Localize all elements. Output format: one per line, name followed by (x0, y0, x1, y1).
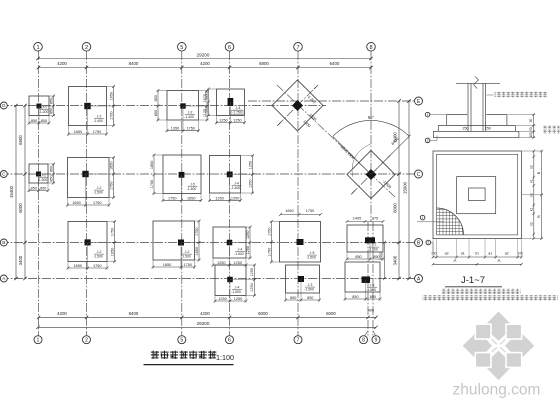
footing J-4 @6-D: bottom dim (217, 122, 245, 124)
diagonal cross axis diamond 1 (277, 85, 318, 126)
svg-text:1650: 1650 (195, 247, 199, 255)
fan radial line right (radius dim 6400) (371, 136, 409, 174)
left segment dim line (24, 106, 26, 279)
svg-text:1250: 1250 (246, 231, 250, 239)
axis bubble 7 top (294, 43, 303, 52)
svg-text:6000: 6000 (326, 311, 336, 316)
svg-text:-1.200: -1.200 (39, 110, 49, 114)
footing J-7 @8-B: bottom dim (347, 258, 383, 260)
detail section: step 1 outline (447, 114, 468, 116)
svg-text:1250: 1250 (219, 119, 227, 123)
svg-text:250: 250 (485, 126, 491, 130)
axis bubble 5 top (178, 43, 187, 52)
svg-text:1650: 1650 (109, 92, 113, 100)
svg-text:1250: 1250 (215, 196, 223, 200)
svg-text:1650: 1650 (74, 264, 82, 268)
svg-text:1:100: 1:100 (216, 353, 234, 362)
axis bubble 2 bottom (83, 336, 91, 344)
footing J-2 @2-C: column (82, 171, 88, 177)
svg-text:29200: 29200 (197, 53, 210, 58)
axis bubble 7 bottom (294, 336, 302, 344)
footing J-5 @7-B: column (297, 239, 304, 245)
svg-text:100: 100 (529, 132, 533, 138)
svg-text:5: 5 (180, 45, 183, 51)
svg-text:1750: 1750 (267, 248, 271, 256)
svg-text:4200: 4200 (200, 61, 210, 66)
svg-text:7: 7 (297, 338, 300, 344)
svg-text:-1.500: -1.500 (368, 248, 378, 252)
svg-text:1650: 1650 (72, 201, 80, 205)
detail note line 2 (422, 295, 558, 300)
svg-text:J-7: J-7 (372, 243, 377, 247)
axis bubble 1 bottom (34, 336, 42, 344)
axis bubble 8 top (367, 43, 376, 52)
svg-text:J-3: J-3 (308, 283, 313, 287)
svg-text:1: 1 (422, 216, 424, 220)
svg-text:A: A (498, 258, 501, 263)
footing J-2 @5-D: left dim (157, 91, 159, 121)
svg-text:1250: 1250 (248, 161, 252, 169)
svg-text:1875: 1875 (204, 91, 208, 99)
svg-text:6000: 6000 (18, 203, 23, 213)
footing J-1 @1-D: bottom dim (29, 122, 49, 124)
svg-text:zhulong.com: zhulong.com (453, 382, 541, 399)
svg-text:1: 1 (37, 338, 40, 344)
svg-text:850: 850 (154, 110, 158, 116)
svg-text:J-2: J-2 (185, 250, 190, 254)
detail plan: outer square (433, 151, 521, 239)
diamond footing J-6 @8-C: column (366, 169, 377, 180)
footing J-2 @2-C: outline (68, 158, 110, 198)
footing J-7 @8-B: top dim (347, 221, 383, 223)
svg-text:h1: h1 (475, 251, 479, 255)
svg-text:50: 50 (529, 119, 533, 123)
footing J-1 @1-C: outline (29, 164, 48, 183)
footing J-2 @5-B: column (178, 240, 184, 246)
svg-text:1250: 1250 (233, 119, 241, 123)
axis bubble 6 top (225, 43, 234, 52)
svg-text:1405: 1405 (353, 216, 361, 220)
axis line 6 (229, 51, 231, 336)
svg-text:850: 850 (31, 119, 37, 123)
svg-text:J-1: J-1 (42, 106, 47, 110)
detail section: base slab (433, 131, 519, 137)
axis line A (0, 278, 414, 280)
axis bubble A left (0, 275, 7, 282)
axis bubble 8 bottom (360, 336, 368, 344)
footing J-2 @5-B: bottom dim (153, 266, 195, 268)
detail section: right dim chain (533, 115, 535, 138)
footing J-4 @6-A: column (227, 277, 233, 283)
svg-text:C: C (417, 172, 421, 178)
detail section: right margin note (543, 126, 560, 129)
svg-text:850: 850 (40, 187, 46, 191)
detail plan: middle square (457, 177, 496, 214)
svg-text:J-4: J-4 (234, 182, 239, 186)
svg-text:850: 850 (290, 296, 296, 300)
footing J-4 @6-A: outline (215, 265, 246, 296)
footing J-2 @2-B: outline (68, 222, 107, 262)
svg-text:90°: 90° (368, 115, 375, 120)
footing J-1 @1-D: right dim (53, 96, 55, 116)
footing J-5 @7-B: left dim (271, 222, 273, 263)
axis bubble C right (415, 170, 423, 178)
svg-text:1: 1 (427, 113, 429, 117)
axis line 5 (181, 51, 183, 336)
svg-text:250: 250 (463, 126, 469, 130)
svg-text:J-4: J-4 (236, 106, 241, 110)
title underline (144, 364, 234, 366)
footing J-1 @1-C: right dim (53, 164, 55, 183)
footing J-7 @8-B: column (365, 237, 375, 243)
top segment dim line (38, 67, 371, 69)
svg-text:850: 850 (49, 98, 53, 104)
footing J-2 @2-D: right dim (113, 87, 115, 126)
footing J-2 @2-D: bottom dim (69, 133, 107, 135)
svg-text:-1.500: -1.500 (231, 290, 241, 294)
detail section: column rebar lines (467, 83, 469, 131)
svg-text:100: 100 (518, 251, 524, 255)
svg-text:-1.400: -1.400 (184, 115, 194, 119)
footing J-4 @6-C: bottom dim (210, 199, 241, 201)
axis bubble 5 bottom (178, 336, 186, 344)
axis bubble D left (0, 102, 7, 109)
svg-text:8: 8 (369, 45, 372, 51)
svg-text:2: 2 (85, 45, 88, 51)
svg-text:1250: 1250 (234, 297, 242, 301)
svg-text:-1.400: -1.400 (231, 186, 241, 190)
detail section: leader circle 2 (425, 138, 430, 143)
svg-text:3400: 3400 (393, 255, 398, 265)
main title 基础平面布置图 (drawn strokes) (151, 351, 159, 353)
svg-text:J-2: J-2 (97, 250, 102, 254)
svg-text:3400: 3400 (18, 255, 23, 265)
bottom overall dim line (38, 326, 376, 328)
detail note line 1 (441, 289, 521, 294)
footing J-2 @5-D: bottom dim (167, 130, 199, 132)
footing J-2 @5-D: outline (167, 91, 199, 121)
footing J-2 @5-D: right dim (206, 91, 208, 121)
diamond footing J-6 @8-C: outline (347, 151, 395, 199)
svg-text:6: 6 (228, 338, 231, 344)
svg-text:a2: a2 (505, 251, 509, 255)
svg-text:-1.500: -1.500 (38, 178, 48, 182)
detail section: leader circle 1 (425, 112, 430, 117)
detail plan: leader circle 1 (420, 215, 425, 220)
svg-text:-1.500: -1.500 (93, 191, 103, 195)
svg-text:J-2: J-2 (188, 111, 193, 115)
svg-text:850: 850 (49, 108, 53, 114)
detail section: break symbol (474, 77, 479, 89)
svg-text:3400: 3400 (379, 252, 383, 260)
svg-text:k2: k2 (529, 165, 533, 169)
footing J-2 @2-B: column (85, 239, 91, 245)
detail plan: inner offset square (437, 154, 518, 235)
footing J-4 @6-D: left dim (208, 89, 210, 116)
svg-text:k1: k1 (529, 208, 533, 212)
svg-text:5: 5 (180, 338, 183, 344)
svg-text:1250: 1250 (250, 283, 254, 291)
svg-text:50: 50 (529, 127, 533, 131)
top overall dim line 29200 (38, 58, 371, 60)
svg-text:1750: 1750 (109, 182, 113, 190)
svg-text:-1.500: -1.500 (304, 288, 314, 292)
svg-text:2: 2 (85, 338, 88, 344)
svg-text:1750: 1750 (93, 264, 101, 268)
footing J-5 @5-C: bottom dim (163, 199, 201, 201)
svg-text:1750: 1750 (109, 112, 113, 120)
footing J-2 @2-B: right dim (114, 222, 116, 262)
footing J-5 @5-C: left dim (153, 155, 155, 194)
svg-text:1750: 1750 (306, 209, 314, 213)
axis line 7 (297, 51, 299, 336)
svg-text:k2: k2 (529, 222, 533, 226)
bottom segment dim line (38, 316, 376, 318)
leader to bubble 9 bottom (373, 331, 376, 336)
svg-text:850: 850 (49, 166, 53, 172)
svg-text:4200: 4200 (57, 61, 67, 66)
axis line E (248, 100, 415, 102)
axis line C (0, 173, 414, 175)
svg-text:850: 850 (31, 187, 37, 191)
footing J-5 @7-B: outline (280, 222, 321, 263)
svg-text:B: B (2, 240, 5, 245)
svg-text:1650: 1650 (109, 162, 113, 170)
svg-text:850: 850 (41, 119, 47, 123)
local dim 3400 between B and A (384, 243, 386, 279)
footing J-2 @5-B: right dim (198, 221, 200, 260)
axis line D (0, 105, 326, 107)
svg-text:-1.500: -1.500 (306, 256, 316, 260)
footing J-4 @6-D: outline (217, 89, 245, 116)
svg-text:1: 1 (36, 45, 39, 51)
axis bubble B left (0, 239, 7, 246)
svg-text:6800: 6800 (18, 135, 23, 145)
svg-text:1250: 1250 (231, 196, 239, 200)
svg-text:15000: 15000 (403, 181, 408, 194)
detail plan: leader circle 2 (426, 240, 431, 245)
svg-text:-1.750: -1.750 (232, 111, 242, 115)
axis line 1 (38, 51, 40, 336)
svg-text:1850: 1850 (150, 161, 154, 169)
svg-text:29200: 29200 (197, 321, 210, 326)
svg-text:6: 6 (228, 45, 231, 51)
svg-text:15400: 15400 (9, 185, 14, 198)
svg-text:1750: 1750 (110, 228, 114, 236)
footing J-3 @7-A: outline (286, 265, 320, 293)
footing J-3 @8-A: outline (345, 262, 380, 292)
axis bubble E right (415, 97, 423, 105)
footing J-4 @6-B: right dim (249, 227, 251, 258)
footing J-2 @2-D: outline (69, 87, 107, 126)
footing J-4 @6-C: right dim (252, 156, 254, 194)
svg-text:6800: 6800 (259, 61, 269, 66)
svg-text:8: 8 (362, 338, 365, 344)
axis line 8 lower (367, 222, 369, 336)
detail section: annotation text 柱插筋,定位筋上部结构 (495, 92, 548, 98)
footing J-4 @6-C: column (227, 172, 233, 178)
svg-text:9: 9 (375, 338, 378, 344)
footing J-5 @5-C: column (179, 172, 185, 178)
detail plan: bottom dim line A A (433, 263, 521, 265)
footing J-4 @6-B: column (227, 240, 233, 246)
svg-text:J-4: J-4 (235, 286, 240, 290)
svg-text:8400: 8400 (129, 61, 139, 66)
svg-text:J-2: J-2 (97, 186, 102, 190)
svg-text:875: 875 (372, 216, 378, 220)
svg-text:6000: 6000 (258, 311, 268, 316)
svg-text:1750: 1750 (187, 127, 195, 131)
leader to bubble 8 bottom (365, 331, 369, 336)
axis bubble 1 top (34, 43, 43, 52)
footing J-2 @2-D: column (84, 103, 90, 109)
footing J-2 @2-B: bottom dim (68, 267, 107, 269)
detail section: top horizontal line (456, 83, 500, 85)
footing J-4 @6-A: right dim (253, 265, 255, 296)
footing J-7 @8-B: outline (347, 225, 383, 252)
footing J-4 @6-C: outline (210, 156, 241, 194)
footing J-2 @5-B: outline (153, 221, 195, 260)
footing J-1 @1-C: column (36, 172, 41, 177)
svg-text:400: 400 (368, 309, 374, 313)
axis bubble C left (0, 171, 7, 178)
svg-text:-1.500: -1.500 (93, 255, 103, 259)
diamond footing J-6 @7-D: column (292, 100, 303, 111)
detail plan: right dim chain k (533, 151, 535, 239)
svg-text:k1: k1 (529, 179, 533, 183)
svg-text:100: 100 (431, 251, 437, 255)
axis line 2 (86, 51, 88, 336)
svg-text:8400: 8400 (129, 311, 139, 316)
svg-text:1350: 1350 (171, 127, 179, 131)
footing J-3 @8-A: bottom dim (345, 298, 380, 300)
svg-text:a1: a1 (461, 251, 465, 255)
footing J-2 @2-C: bottom dim (68, 204, 110, 206)
svg-text:1250: 1250 (234, 261, 242, 265)
axis line 8 upper (370, 51, 372, 222)
svg-text:1125: 1125 (204, 105, 208, 113)
footing J-3 @7-A: bottom dim (286, 299, 320, 301)
footing J-4 @6-B: outline (213, 227, 246, 258)
detail section: step 2 outline (438, 124, 515, 126)
svg-text:1750: 1750 (184, 263, 192, 267)
svg-text:1750: 1750 (168, 196, 176, 200)
svg-text:850: 850 (355, 255, 361, 259)
diamond footing J-6 @7-D: outline (272, 80, 323, 131)
svg-text:J-1~7: J-1~7 (461, 275, 485, 286)
svg-text:-1.400: -1.400 (187, 187, 197, 191)
right overall dim line 15000 (408, 101, 410, 279)
svg-text:850: 850 (49, 175, 53, 181)
svg-text:1750: 1750 (93, 130, 101, 134)
detail plan: hatched quarter circle (436, 207, 464, 235)
left overall dim line 15400 (15, 106, 17, 279)
svg-text:a2: a2 (445, 251, 449, 255)
footing J-1 @1-C: bottom dim (29, 190, 48, 192)
svg-text:850: 850 (370, 295, 376, 299)
footing J-3 @7-A: column (298, 276, 304, 282)
svg-text:1250: 1250 (248, 179, 252, 187)
axis line B (0, 242, 415, 244)
svg-text:1750: 1750 (93, 201, 101, 205)
svg-text:2: 2 (427, 139, 429, 143)
svg-text:1750: 1750 (195, 228, 199, 236)
svg-text:-1.500: -1.500 (366, 288, 376, 292)
small leader arc near diamond 2 (352, 144, 371, 177)
fan arc 90deg radius 6400 centered at 8xC (333, 120, 409, 136)
svg-text:850: 850 (154, 95, 158, 101)
svg-text:1250: 1250 (218, 297, 226, 301)
svg-text:J-5: J-5 (310, 251, 315, 255)
svg-text:7: 7 (296, 45, 299, 51)
svg-text:850: 850 (352, 295, 358, 299)
svg-text:B: B (537, 171, 541, 174)
svg-text:J-1: J-1 (41, 174, 46, 178)
detail plan: center column square (469, 188, 486, 201)
svg-text:4200: 4200 (57, 311, 67, 316)
svg-text:1650: 1650 (285, 209, 293, 213)
svg-text:J-3: J-3 (370, 284, 375, 288)
detail plan: right dim chain B B (541, 151, 543, 239)
axis line 9 lower (372, 222, 374, 336)
right segment dim line (398, 101, 400, 279)
svg-text:A: A (454, 258, 457, 263)
fan radial line left (333, 136, 371, 174)
svg-text:1250: 1250 (246, 246, 250, 254)
footing J-2 @2-C: right dim (113, 158, 115, 198)
svg-text:1650: 1650 (74, 130, 82, 134)
axis bubble 9 bottom (372, 336, 380, 344)
footing J-5 @7-B: top dim (281, 214, 321, 216)
svg-text:2: 2 (427, 241, 429, 245)
axis bubble B right (415, 239, 423, 247)
svg-text:J-2: J-2 (97, 115, 102, 119)
svg-text:a1: a1 (488, 251, 492, 255)
svg-text:4200: 4200 (200, 311, 210, 316)
svg-text:J-4: J-4 (238, 248, 243, 252)
detail plan: bottom dim line segments (433, 256, 521, 258)
svg-text:J-5: J-5 (190, 183, 195, 187)
axis bubble 6 bottom (226, 336, 234, 344)
footing J-4 @6-A: bottom dim (215, 300, 246, 302)
diagonal axis through diamonds (277, 85, 395, 197)
svg-text:-1.500: -1.500 (181, 255, 191, 259)
svg-text:1650: 1650 (187, 196, 195, 200)
svg-text:1750: 1750 (267, 228, 271, 236)
footing J-2 @5-D: column (180, 103, 185, 108)
svg-text:6000: 6000 (393, 203, 398, 213)
svg-text:1750: 1750 (150, 180, 154, 188)
svg-text:-1.500: -1.500 (234, 252, 244, 256)
svg-text:1250: 1250 (217, 261, 225, 265)
diagonal cross axis diamond 2 (351, 155, 391, 195)
svg-text:850: 850 (307, 296, 313, 300)
watermark logo pinwheel (463, 312, 535, 381)
footing J-1 @1-D: column (37, 104, 42, 109)
footing J-5 @5-C: outline (163, 155, 201, 194)
footing J-4 @6-B: bottom dim (213, 264, 246, 266)
svg-text:B: B (537, 215, 541, 218)
footing J-3 @8-A: column (362, 276, 371, 283)
footing J-1 @1-D: outline (29, 96, 49, 116)
axis bubble A right (415, 275, 423, 283)
axis bubble 2 top (82, 43, 91, 52)
svg-text:1650: 1650 (110, 248, 114, 256)
svg-text:1650: 1650 (163, 263, 171, 267)
footing J-4 @6-D: column (228, 98, 234, 106)
svg-text:6400: 6400 (330, 61, 340, 66)
svg-text:1250: 1250 (250, 268, 254, 276)
